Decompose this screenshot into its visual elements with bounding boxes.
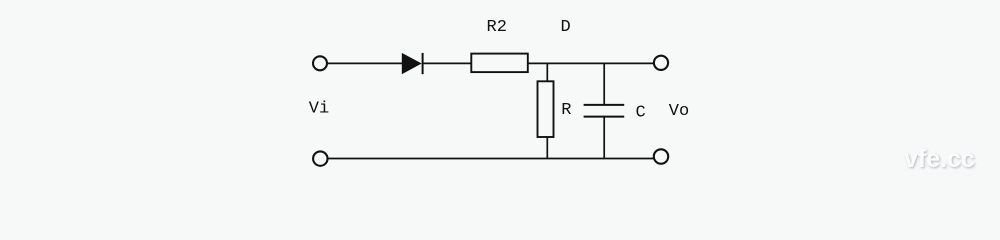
resistor R body bbox=[538, 81, 554, 137]
wire: node D down to capacitor C top plate bbox=[603, 63, 605, 105]
wire: node after R2 down to resistor R bbox=[546, 63, 548, 81]
svg-text:C: C bbox=[636, 103, 646, 122]
capacitor C top plate bbox=[584, 104, 625, 106]
diode D1 cathode bar bbox=[422, 53, 424, 74]
wire: resistor R to bottom rail bbox=[546, 137, 548, 159]
watermark vfe.cc bbox=[904, 145, 975, 174]
svg-text:R2: R2 bbox=[487, 18, 507, 37]
terminal Vo bottom bbox=[654, 149, 668, 163]
terminal Vi top bbox=[313, 56, 327, 70]
wire bottom rail bbox=[328, 158, 654, 160]
svg-text:Vi: Vi bbox=[309, 100, 329, 119]
terminal Vi bottom bbox=[313, 151, 327, 165]
svg-text:D: D bbox=[561, 18, 571, 37]
capacitor C bottom plate bbox=[584, 116, 625, 118]
diode D1 triangle bbox=[402, 54, 420, 74]
terminal Vo top bbox=[654, 56, 668, 70]
svg-text:R: R bbox=[561, 101, 571, 120]
resistor R2 body bbox=[471, 54, 528, 73]
wire top: R2 to node D and Vo terminal bbox=[528, 62, 654, 64]
wire: capacitor C bottom plate to bottom rail bbox=[603, 117, 605, 159]
svg-text:Vo: Vo bbox=[669, 102, 689, 121]
wire top: Vi terminal to diode anode bbox=[327, 62, 402, 64]
wire top: diode cathode to R2 bbox=[424, 62, 472, 64]
